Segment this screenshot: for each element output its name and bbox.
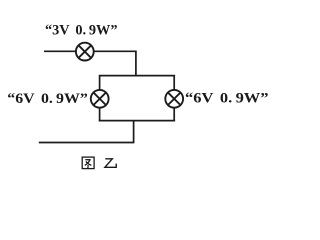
wire: top-left lead [44, 50, 76, 52]
svg-text:“6V 0. 9W”: “6V 0. 9W” [7, 90, 88, 107]
wire: bottom stub from parallel box [133, 121, 135, 143]
wire: right branch lower lead [173, 107, 175, 121]
caption character 乙 [105, 159, 116, 168]
wire: bottom-left lead [39, 142, 135, 144]
svg-text:“6V 0. 9W”: “6V 0. 9W” [185, 90, 269, 107]
caption character 图 [82, 157, 94, 169]
wire: left branch upper lead [99, 76, 101, 91]
wire: parallel box top edge [99, 75, 175, 77]
lamp L3 (right 6V 0.9W) [165, 90, 183, 108]
svg-text:“3V 0. 9W”: “3V 0. 9W” [45, 21, 118, 38]
wire: parallel box bottom edge [99, 120, 175, 122]
lamp L2 (left 6V 0.9W) [91, 90, 109, 108]
wire: top branch right segment and drop to parallel box [94, 51, 136, 75]
lamp L1 (3V 0.9W) [76, 43, 94, 61]
wire: right branch upper lead [173, 76, 175, 91]
wire: left branch lower lead [99, 107, 101, 121]
